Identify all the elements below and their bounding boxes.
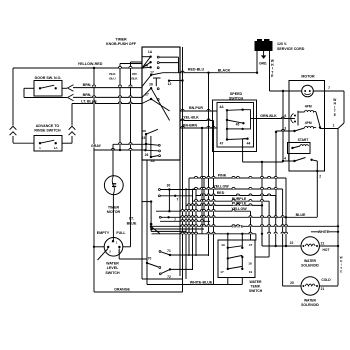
svg-text:71: 71: [167, 249, 171, 253]
svg-text:1: 1: [333, 124, 335, 128]
svg-text:RD: RD: [132, 72, 137, 76]
svg-text:SOLENOID: SOLENOID: [301, 303, 319, 307]
svg-text:BN-PUR: BN-PUR: [189, 106, 203, 110]
svg-text:12: 12: [168, 82, 172, 86]
svg-text:YELLOW: YELLOW: [213, 185, 229, 189]
svg-text:2A: 2A: [150, 159, 155, 163]
svg-text:2: 2: [319, 175, 321, 179]
svg-text:SWITCH: SWITCH: [249, 289, 263, 293]
svg-text:TEMP.: TEMP.: [251, 285, 261, 289]
svg-text:BLU: BLU: [109, 77, 116, 81]
svg-text:47: 47: [249, 243, 253, 247]
svg-text:START: START: [298, 138, 309, 142]
svg-text:MOTOR: MOTOR: [301, 75, 315, 79]
svg-text:KNOB-PUSH OFF: KNOB-PUSH OFF: [106, 42, 137, 46]
svg-text:21: 21: [321, 287, 325, 291]
svg-text:ADVANCE TO: ADVANCE TO: [36, 124, 60, 128]
svg-text:19: 19: [249, 270, 253, 274]
svg-text:4: 4: [284, 156, 286, 160]
svg-text:BLK: BLK: [109, 72, 116, 76]
svg-text:E: E: [340, 270, 342, 274]
svg-text:BRN,: BRN,: [83, 93, 92, 97]
svg-text:18: 18: [248, 261, 252, 265]
svg-text:FULL: FULL: [116, 231, 126, 235]
svg-text:4PM: 4PM: [305, 105, 312, 109]
svg-text:DOOR SW. N.O.: DOOR SW. N.O.: [35, 76, 62, 80]
svg-text:WHITE-BLUE: WHITE-BLUE: [190, 280, 213, 284]
svg-text:7: 7: [177, 198, 179, 202]
svg-text:RINSE SWITCH: RINSE SWITCH: [34, 129, 61, 133]
svg-text:BRN,: BRN,: [83, 83, 92, 87]
svg-text:GRN-BLK: GRN-BLK: [260, 114, 277, 118]
svg-text:WATER: WATER: [304, 299, 317, 303]
svg-text:TIMER: TIMER: [115, 38, 127, 42]
svg-text:20: 20: [290, 281, 294, 285]
svg-text:BLUE: BLUE: [296, 213, 306, 217]
svg-text:72: 72: [167, 275, 171, 279]
svg-text:WATER: WATER: [304, 259, 317, 263]
svg-text:120 V.: 120 V.: [277, 42, 287, 46]
svg-text:47: 47: [220, 142, 224, 146]
svg-text:SWITCH: SWITCH: [105, 271, 120, 275]
svg-text:YELLOW-RED: YELLOW-RED: [78, 62, 103, 66]
svg-text:1A: 1A: [148, 50, 153, 54]
svg-text:PINK: PINK: [218, 174, 227, 178]
svg-text:4PM: 4PM: [305, 121, 312, 125]
svg-text:6: 6: [284, 114, 286, 118]
svg-text:RED: RED: [217, 191, 225, 195]
svg-text:LT.: LT.: [129, 217, 134, 221]
svg-text:LEVEL: LEVEL: [107, 266, 119, 270]
svg-text:E: E: [334, 113, 336, 117]
svg-text:22: 22: [290, 241, 294, 245]
svg-text:26: 26: [145, 153, 149, 157]
svg-text:17: 17: [220, 270, 224, 274]
svg-text:7: 7: [328, 86, 330, 90]
svg-text:COLD: COLD: [321, 278, 331, 282]
svg-text:30: 30: [167, 183, 171, 187]
svg-text:26: 26: [149, 83, 153, 87]
svg-text:70: 70: [148, 257, 152, 261]
svg-text:BN-BRN: BN-BRN: [183, 123, 198, 127]
svg-text:SERVICE CORD: SERVICE CORD: [277, 47, 305, 51]
svg-text:GRAY: GRAY: [91, 144, 102, 148]
svg-text:RED-BLU: RED-BLU: [188, 67, 205, 71]
svg-text:WHITE: WHITE: [318, 230, 330, 234]
svg-text:EMPTY: EMPTY: [97, 231, 110, 235]
svg-text:GRD.: GRD.: [259, 62, 267, 66]
svg-text:SOLENOID: SOLENOID: [301, 264, 319, 268]
svg-text:WATER: WATER: [106, 262, 119, 266]
svg-text:YEL-BLK: YEL-BLK: [183, 116, 199, 120]
svg-text:21: 21: [321, 241, 325, 245]
svg-text:45: 45: [236, 123, 240, 127]
svg-text:ORANGE: ORANGE: [114, 288, 130, 292]
svg-text:BLK: BLK: [131, 77, 138, 81]
svg-text:4A: 4A: [219, 105, 224, 109]
svg-text:HOT: HOT: [323, 248, 330, 252]
svg-text:BLACK: BLACK: [218, 69, 231, 73]
svg-text:44: 44: [247, 142, 251, 146]
svg-text:BLUE: BLUE: [127, 221, 137, 225]
svg-text:15: 15: [142, 136, 146, 140]
svg-text:WATER: WATER: [250, 280, 263, 284]
svg-text:SPEED: SPEED: [230, 92, 243, 96]
